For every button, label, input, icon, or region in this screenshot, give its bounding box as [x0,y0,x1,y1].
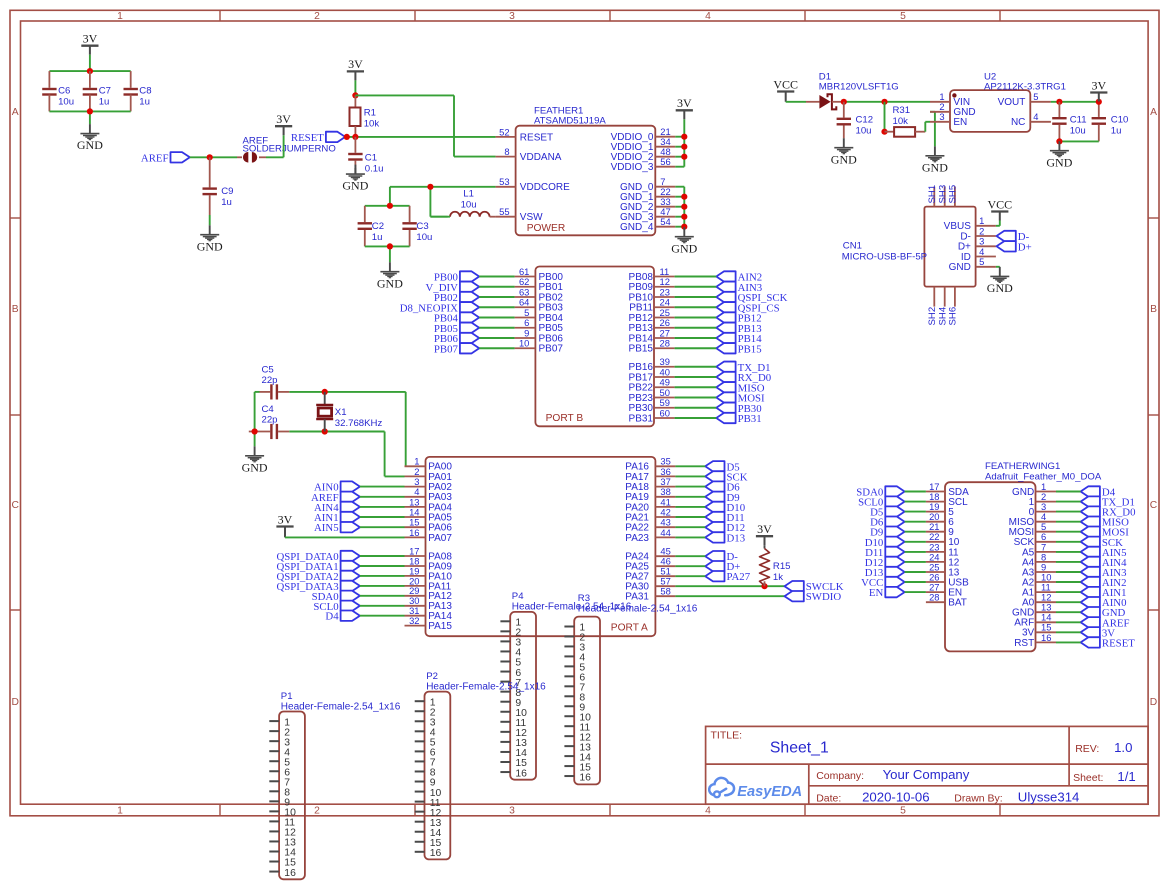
pin 48 VDDIO_2 of FEATHER1 [611,146,676,163]
wire AREF net [190,156,237,158]
svg-text:AIN5: AIN5 [314,522,339,534]
pin 2 GND of U2 [930,101,976,118]
pin 4 ID of CN1 [961,246,996,263]
wire EN to pin 27 [905,591,926,593]
solder jumper AREF SOLDERJUMPERNO [237,136,336,163]
svg-text:X1: X1 [335,407,347,418]
pin 10 PB07 of PORT B [515,338,564,355]
svg-text:RESET: RESET [1102,637,1135,649]
wire PA20 to D10 [675,506,705,508]
net flag SCK (featherwing right) [1081,537,1124,549]
pin 17 PA08 of PORT A [405,545,453,562]
svg-text:3: 3 [939,111,944,122]
svg-text:VDDIO_3: VDDIO_3 [611,162,654,173]
net flag D5 [705,461,740,473]
pin 15 PA06 of PORT A [405,517,453,534]
svg-text:32.768KHz: 32.768KHz [335,418,383,429]
pin 60 PB31 of PORT B [629,407,675,424]
wire PB15 to PB15 [675,347,717,349]
pin SH4 of CN1 [937,287,948,326]
svg-text:Your Company: Your Company [883,767,970,782]
connector CN1 MICRO-USB-BF-5P [842,207,976,287]
pin 7 GND_0 of FEATHER1 [620,176,675,193]
junction C12 top [841,99,847,105]
svg-text:EN: EN [869,587,884,599]
net flag SDA0 [312,591,360,603]
net flag QSPI_DATA3 [276,581,359,593]
pin 19 PA10 of PORT A [405,565,453,582]
pin 35 PA16 of PORT A [625,456,675,473]
ground GND (below C9) [197,225,223,253]
pin 5 MOSI of FEATHERWING1 [1009,521,1056,538]
net flag D+ [705,561,740,573]
pin 51 PA27 of PORT A [625,566,675,583]
title block [706,726,1149,804]
title block Company row [816,767,970,782]
svg-text:1.0: 1.0 [1114,740,1132,755]
IC FEATHERWING1 Adafruit_Feather_M0_DOA [945,461,1102,651]
wire pin 3 to RX_D0 [1056,511,1081,513]
svg-text:REV:: REV: [1075,743,1099,755]
pin 26 PB13 of PORT B [629,317,675,334]
power symbol VCC (CN1) [987,197,1012,220]
svg-text:1: 1 [117,806,123,817]
net flag D9 [705,492,740,504]
wire PB12 to PB12 [675,317,717,319]
svg-text:Header-Female-2.54_1x16: Header-Female-2.54_1x16 [578,603,698,614]
wire D4 to PA14 [360,615,405,617]
svg-text:GND: GND [1046,155,1072,169]
svg-text:Sheet:: Sheet: [1073,772,1103,784]
pin 38 PA19 of PORT A [625,486,675,503]
svg-text:GND: GND [342,179,368,193]
svg-text:GND: GND [949,262,971,273]
net flag V_DIV [426,282,480,294]
wire D5 to pin 19 [905,511,926,513]
svg-text:C2: C2 [372,221,384,232]
svg-text:C8: C8 [139,86,151,97]
pin 3 0 of FEATHERWING1 [1029,501,1056,518]
pin 21 VDDIO_0 of FEATHER1 [611,126,676,143]
svg-text:PA07: PA07 [428,533,452,544]
wire PB17 to RX_D0 [675,376,717,378]
IC PORT A block of FEATHER1 [426,457,656,636]
pin 27 EN of FEATHERWING1 [926,582,962,599]
svg-text:POWER: POWER [527,223,566,234]
pin 20 PA11 of PORT A [405,575,452,592]
wire PA16 to D5 [675,465,705,467]
IC FEATHER1 ATSAMD51J19A POWER block [516,106,656,236]
svg-text:10: 10 [519,338,529,349]
pin 27 PB14 of PORT B [629,327,675,344]
svg-text:GND: GND [242,460,268,474]
net flag AIN1 [314,512,360,524]
wire GND rail of FEATHER1 [675,187,684,228]
wire PB07 to PB07 [479,347,514,349]
svg-text:B: B [12,304,19,315]
svg-text:GND_4: GND_4 [620,222,654,233]
wire AIN0 to PA02 [360,486,405,488]
pin 23 11 of FEATHERWING1 [926,541,959,558]
net flag MOSI (featherwing right) [1081,527,1130,539]
svg-text:RST: RST [1014,638,1034,649]
wire XIN net [289,392,405,466]
wire AIN1 to PA05 [360,516,405,518]
net flag SCL0 (featherwing) [858,496,905,508]
svg-text:D: D [1150,697,1157,708]
pin 13 PA04 of PORT A [405,496,453,513]
wire XOUT net [289,432,404,477]
capacitor C4 22p [249,404,289,439]
svg-text:SH2: SH2 [927,307,938,326]
pin 40 PB17 of PORT B [629,366,675,383]
svg-text:16: 16 [1041,632,1051,643]
pin 29 PA12 of PORT A [405,585,453,602]
svg-text:C: C [1150,500,1158,511]
capacitor C7 1u [83,71,111,111]
resistor R31 10k [885,105,926,137]
wire PA30 to SWCLK [675,585,784,587]
wire PB00 to PB00 [479,276,514,278]
net flag D11 [705,512,745,524]
svg-text:PORT A: PORT A [611,623,648,634]
pin 30 PA13 of PORT A [405,595,453,612]
net flag PB30 [716,403,761,415]
wire PA19 to D9 [675,496,705,498]
pin 33 GND_2 of FEATHER1 [620,196,675,213]
pin SH3 of CN1 [937,185,948,207]
ground GND (crystal) [242,446,268,474]
wire pin 14 to AREF [1056,621,1081,623]
inductor L1 10u [430,189,495,217]
net flag QSPI_DATA1 [276,561,359,573]
svg-text:GND: GND [922,160,948,174]
wire jumper to 3V [266,135,284,157]
wire PB16 to TX_D1 [675,366,717,368]
wire crystal left rail [255,392,260,446]
svg-text:SH1: SH1 [927,185,938,204]
ground GND (below C2 C3) [377,262,403,290]
svg-text:Sheet_1: Sheet_1 [770,740,829,757]
net flag D8_NEOPIX [400,302,479,314]
junction C11 bottom [1056,138,1062,144]
pin 8 VDDANA of FEATHER1 [496,146,562,163]
net flag SWDIO [785,591,842,603]
pin 63 PB02 of PORT B [515,286,564,303]
ground GND (CN1) [987,267,1013,295]
title block REV text [1075,740,1132,755]
wire AIN4 to PA04 [360,506,405,508]
pin 25 13 of FEATHERWING1 [926,561,960,578]
wire PB05 to PB05 [479,327,514,329]
wire SCL0 to pin 18 [905,501,926,503]
pin 2 PA01 of PORT A [405,466,453,483]
net flag RX_D0 (featherwing right) [1081,506,1136,518]
capacitor C8 1u [124,80,152,111]
crystal X1 32.768KHz [316,392,382,432]
svg-text:1u: 1u [221,197,232,208]
wire C2 C3 bottom rail [365,246,410,262]
wire AREF to PA03 [360,496,405,498]
wire cap bank bottom rail [49,111,130,124]
svg-text:PB31: PB31 [738,413,762,425]
svg-text:C11: C11 [1070,114,1087,125]
svg-text:Header-Female-2.54_1x16: Header-Female-2.54_1x16 [426,681,546,692]
svg-text:R1: R1 [364,108,376,119]
net flag QSPI_DATA2 [276,571,359,583]
net flag QSPI_CS [716,302,779,314]
pin 32 PA15 of PORT A [405,615,453,632]
net flag AIN4 [314,502,360,514]
net flag D11 (featherwing) [865,547,905,559]
svg-text:4: 4 [705,806,711,817]
svg-text:PB31: PB31 [629,413,654,424]
wire VOUT to 3V [1051,102,1099,117]
pin 31 PA14 of PORT A [405,605,453,622]
net flag RESET (featherwing right) [1081,637,1136,649]
net flag AREF [141,152,190,164]
net flag PB31 [716,413,761,425]
wire D6 to pin 20 [905,521,926,523]
net flag PB12 [716,312,761,324]
wire VDDCORE net [390,187,496,217]
svg-text:16: 16 [515,768,527,779]
resistor R1 10k [350,95,380,136]
net flag GND (featherwing right) [1081,607,1126,619]
pin 25 PB12 of PORT B [629,307,675,324]
title block Date row [816,789,1079,804]
wire PA24 to D- [675,555,705,557]
pin 53 VDDCORE of FEATHER1 [496,176,571,193]
net flag PB02 [434,292,479,304]
pin 49 PB22 of PORT B [629,377,675,394]
net flag TX_D1 [716,362,770,374]
wire pin 1 to D4 [1056,491,1081,493]
pin 2 D- of CN1 [960,225,996,242]
net flag D+ (CN1) [997,241,1032,253]
svg-text:3V: 3V [278,512,293,526]
svg-text:A: A [12,107,19,118]
wire PB02 to PB02 [479,296,514,298]
svg-text:3: 3 [509,11,515,22]
wire PB11 to QSPI_CS [675,306,717,308]
wire PA22 to D12 [675,526,705,528]
svg-text:R15: R15 [773,561,791,572]
svg-text:10k: 10k [364,118,380,129]
pin 7 A5 of FEATHERWING1 [1022,541,1056,558]
wire PB22 to MISO [675,386,717,388]
pin 26 USB of FEATHERWING1 [926,571,969,588]
svg-text:Company:: Company: [816,770,864,782]
svg-text:GND: GND [377,276,403,290]
wire D12 to pin 24 [905,561,926,563]
power symbol 3V (right of jumper) [275,112,292,135]
pin 3 EN of U2 [930,111,967,128]
svg-text:PA27: PA27 [727,571,751,583]
svg-text:C5: C5 [262,364,274,375]
svg-text:PB07: PB07 [434,343,459,355]
svg-text:EasyEDA: EasyEDA [737,784,802,800]
pin 16 PA07 of PORT A [405,527,453,544]
svg-text:1: 1 [117,11,123,22]
power symbol 3V (VDDIO rail) [676,96,693,119]
IC PORT B block of FEATHER1 [535,267,654,427]
svg-text:10u: 10u [416,232,432,243]
title block TITLE text [711,730,829,757]
pin 5 VOUT of U2 [998,91,1051,108]
svg-text:1k: 1k [773,572,783,583]
wire PA18 to D6 [675,486,705,488]
pin 41 PA20 of PORT A [625,496,675,513]
connector P2 Header-Female-2.54 1x16 [415,671,546,859]
pin 11 PB08 of PORT B [629,266,675,283]
wire pin 15 to 3V [1056,631,1081,633]
junction RESET R1 C1 [352,134,358,140]
net flag D4 [325,611,360,623]
wire pin 10 to AIN2 [1056,581,1081,583]
wire VBUS to VCC [996,221,1000,226]
net flag D13 (featherwing) [865,567,905,579]
diode D1 MBR120VLSFT1G schottky [806,71,899,109]
net flag PA27 [705,571,751,583]
wire VCC to pin 26 [905,581,926,583]
capacitor C10 1u [1092,114,1129,141]
svg-text:1u: 1u [99,97,110,108]
net flag PB04 [434,312,479,324]
net flag SCK [705,471,748,483]
wire pin 5 to MOSI [1056,531,1081,533]
wire 3V to cap bank top rail [49,55,130,80]
net flag PB00 [434,271,479,283]
net flag PB07 [434,343,479,355]
svg-text:55: 55 [499,206,509,217]
pin 3 D+ of CN1 [958,236,996,253]
pin 4 NC of U2 [1011,111,1051,128]
svg-text:5: 5 [1033,91,1038,102]
pin 24 PB11 of PORT B [629,297,674,314]
wire U2 GND pin down [930,112,935,147]
net flag AIN4 (featherwing right) [1081,557,1127,569]
pin 1 PA00 of PORT A [405,456,453,473]
pin 4 MISO of FEATHERWING1 [1009,511,1056,528]
pin 50 PB23 of PORT B [629,387,675,404]
svg-text:16: 16 [409,527,419,538]
pin 52 RESET of FEATHER1 [496,126,554,143]
pin 5 PB04 of PORT B [515,307,564,324]
capacitor C2 1u [358,214,384,246]
pin 61 PB00 of PORT B [515,266,564,283]
wire QSPI_DATA1 to PA09 [360,565,405,567]
svg-text:C9: C9 [221,186,233,197]
wire D13 to pin 25 [905,571,926,573]
capacitor C12 10u [837,102,874,138]
wire C11 C10 bottom [1059,140,1098,142]
svg-text:AREF: AREF [141,152,169,164]
svg-text:SH6: SH6 [948,307,959,326]
wire VDDANA net [355,95,495,156]
svg-text:C12: C12 [856,114,874,125]
power symbol 3V (above R15) [756,522,773,545]
pin 9 A3 of FEATHERWING1 [1022,561,1056,578]
svg-text:3V: 3V [1091,78,1106,92]
svg-text:PB15: PB15 [738,343,762,355]
pin 19 5 of FEATHERWING1 [926,501,954,518]
wire PB31 to PB31 [675,417,717,419]
svg-text:28: 28 [660,338,670,349]
capacitor C3 10u [402,214,432,246]
wire PB23 to MOSI [675,397,717,399]
pin 2 1 of FEATHERWING1 [1029,491,1056,508]
pin 59 PB30 of PORT B [629,397,675,414]
junction RESET flag [344,134,350,140]
wire GND pin 5 CN1 [996,266,1000,268]
svg-text:Ulysse314: Ulysse314 [1018,789,1080,804]
svg-text:EN: EN [953,117,967,128]
pin 18 PA09 of PORT A [405,555,453,572]
wire 3V to PA07 [285,536,405,538]
svg-text:3V: 3V [83,32,98,46]
net flag AIN3 [716,282,762,294]
net flag PB06 [434,333,479,345]
wire pin 8 to AIN4 [1056,561,1081,563]
svg-text:SOLDERJUMPERNO: SOLDERJUMPERNO [243,144,336,155]
ground GND (below C1) [342,165,368,193]
power symbol VCC (input) [773,77,798,100]
svg-text:3V: 3V [757,522,772,536]
pin 8 A4 of FEATHERWING1 [1022,551,1056,568]
junction top rail [87,68,93,74]
svg-text:C7: C7 [99,86,111,97]
wire R31 left branch [884,102,886,132]
net flag D6 (featherwing) [870,517,905,529]
pin 14 ARF of FEATHERWING1 [1014,612,1056,629]
svg-text:TITLE:: TITLE: [711,730,743,742]
svg-text:3V: 3V [276,112,291,126]
net flag RX_D0 [716,372,771,384]
svg-text:GND: GND [671,241,697,255]
wire PB14 to PB14 [675,337,717,339]
wire PA21 to D11 [675,516,705,518]
pin 5 GND of CN1 [949,256,996,273]
svg-text:16: 16 [579,772,591,783]
pin 42 PA21 of PORT A [625,506,675,523]
net flag AREF (featherwing right) [1081,617,1130,629]
net flag MOSI [716,392,765,404]
wire PA31 to SWDIO [675,595,784,597]
pin 54 GND_4 of FEATHER1 [620,216,675,233]
svg-text:2020-10-06: 2020-10-06 [862,789,929,804]
svg-text:ATSAMD51J19A: ATSAMD51J19A [534,116,606,127]
pin 10 A2 of FEATHERWING1 [1022,571,1056,588]
svg-text:RESET: RESET [291,132,324,144]
ground GND (below C12) [831,138,857,166]
svg-text:MBR120VLSFT1G: MBR120VLSFT1G [819,82,899,93]
pin 6 SCK of FEATHERWING1 [1014,531,1056,548]
svg-text:GND: GND [831,152,857,166]
svg-text:L1: L1 [463,189,474,200]
wire pin 11 to AIN1 [1056,591,1081,593]
junction C11 top [1056,99,1062,105]
pin 16 RST of FEATHERWING1 [1014,632,1056,649]
net flag RESET [291,132,345,144]
net flag D10 [705,502,745,514]
svg-text:R31: R31 [893,105,911,116]
ground GND (below cap bank) [77,124,103,152]
pin 39 PB16 of PORT B [629,356,675,373]
wire RESET net to pin 52 [345,136,495,138]
wire VCC to D1 [786,101,806,102]
svg-text:PA15: PA15 [428,621,452,632]
